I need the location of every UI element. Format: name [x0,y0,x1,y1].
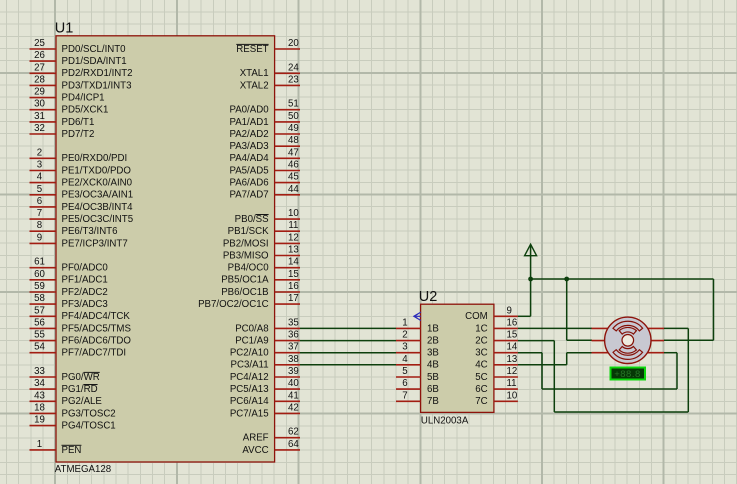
svg-text:57: 57 [34,305,45,316]
svg-text:PD1/SDA/INT1: PD1/SDA/INT1 [62,56,127,67]
svg-text:38: 38 [288,354,299,365]
svg-text:14: 14 [507,342,518,353]
svg-text:PA5/AD5: PA5/AD5 [229,165,268,176]
svg-text:XTAL2: XTAL2 [240,80,269,91]
svg-text:45: 45 [288,172,299,183]
svg-text:PF2/ADC2: PF2/ADC2 [62,287,108,298]
svg-text:2B: 2B [427,336,439,347]
svg-text:30: 30 [34,99,45,110]
svg-text:2: 2 [37,147,42,158]
svg-text:28: 28 [34,74,45,85]
svg-text:6: 6 [37,196,42,207]
svg-text:PD0/SCL/INT0: PD0/SCL/INT0 [62,44,127,55]
svg-text:PE3/OC3A/AIN1: PE3/OC3A/AIN1 [62,190,134,201]
svg-text:1: 1 [37,439,42,450]
svg-text:46: 46 [288,160,299,171]
svg-text:10: 10 [288,208,299,219]
svg-text:51: 51 [288,99,299,110]
svg-text:14: 14 [288,257,299,268]
svg-text:PF4/ADC4/TCK: PF4/ADC4/TCK [62,311,131,322]
svg-text:7B: 7B [427,396,439,407]
svg-text:PC0/A8: PC0/A8 [235,323,268,334]
svg-text:5: 5 [37,184,42,195]
svg-text:PB3/MISO: PB3/MISO [223,250,269,261]
svg-text:PA0/AD0: PA0/AD0 [229,105,269,116]
svg-text:16: 16 [288,281,299,292]
svg-text:PE6/T3/INT6: PE6/T3/INT6 [62,226,118,237]
svg-text:55: 55 [34,330,45,341]
svg-text:RESET: RESET [236,44,268,55]
svg-text:43: 43 [34,390,45,401]
svg-text:41: 41 [288,390,299,401]
svg-text:3: 3 [402,342,407,353]
svg-text:PA2/AD2: PA2/AD2 [229,129,268,140]
svg-text:29: 29 [34,87,45,98]
svg-text:36: 36 [288,330,299,341]
svg-text:+88.8: +88.8 [614,369,641,380]
svg-text:PB7/OC2/OC1C: PB7/OC2/OC1C [198,299,269,310]
svg-text:PA7/AD7: PA7/AD7 [229,190,268,201]
svg-text:1: 1 [402,317,407,328]
svg-text:PB1/SCK: PB1/SCK [228,226,269,237]
svg-text:58: 58 [34,293,45,304]
svg-text:PF1/ADC1: PF1/ADC1 [62,275,108,286]
svg-text:PEN: PEN [62,445,82,456]
svg-text:25: 25 [34,38,45,49]
svg-text:40: 40 [288,378,299,389]
svg-text:23: 23 [288,74,299,85]
svg-text:7: 7 [402,390,407,401]
svg-text:PC7/A15: PC7/A15 [230,408,269,419]
svg-text:PC5/A13: PC5/A13 [230,384,269,395]
svg-text:5: 5 [402,366,407,377]
svg-text:64: 64 [288,439,299,450]
svg-text:2: 2 [402,330,407,341]
svg-text:PD6/T1: PD6/T1 [62,117,95,128]
svg-text:6: 6 [402,378,407,389]
svg-text:PB2/MOSI: PB2/MOSI [223,238,269,249]
svg-text:34: 34 [34,378,45,389]
svg-text:33: 33 [34,366,45,377]
svg-text:15: 15 [507,330,518,341]
svg-text:20: 20 [288,38,299,49]
svg-text:60: 60 [34,269,45,280]
svg-text:13: 13 [507,354,518,365]
svg-text:PD3/TXD1/INT3: PD3/TXD1/INT3 [62,80,132,91]
svg-text:10: 10 [507,390,518,401]
svg-text:PF5/ADC5/TMS: PF5/ADC5/TMS [62,323,132,334]
svg-text:50: 50 [288,111,299,122]
svg-text:7C: 7C [475,396,487,407]
svg-text:3C: 3C [475,348,487,359]
svg-text:PA3/AD3: PA3/AD3 [229,141,268,152]
svg-text:PE5/OC3C/INT5: PE5/OC3C/INT5 [62,214,134,225]
svg-text:PC6/A14: PC6/A14 [230,396,269,407]
svg-text:2C: 2C [475,336,487,347]
svg-text:4C: 4C [475,360,487,371]
svg-text:11: 11 [288,220,298,231]
svg-text:PG4/TOSC1: PG4/TOSC1 [62,421,116,432]
svg-text:ULN2003A: ULN2003A [421,416,469,427]
svg-text:56: 56 [34,317,45,328]
svg-text:PC2/A10: PC2/A10 [230,348,269,359]
svg-text:39: 39 [288,366,299,377]
svg-text:4B: 4B [427,360,439,371]
svg-text:PF3/ADC3: PF3/ADC3 [62,299,108,310]
svg-text:PD7/T2: PD7/T2 [62,129,95,140]
svg-text:26: 26 [34,50,45,61]
svg-text:6C: 6C [475,384,487,395]
svg-text:PE4/OC3B/INT4: PE4/OC3B/INT4 [62,202,134,213]
svg-text:48: 48 [288,135,299,146]
svg-text:PA1/AD1: PA1/AD1 [229,117,268,128]
svg-text:13: 13 [288,245,299,256]
svg-text:PF7/ADC7/TDI: PF7/ADC7/TDI [62,348,127,359]
svg-text:24: 24 [288,62,299,73]
svg-text:ATMEGA128: ATMEGA128 [55,464,111,475]
svg-text:PE2/XCK0/AIN0: PE2/XCK0/AIN0 [62,178,133,189]
svg-text:PE0/RXD0/PDI: PE0/RXD0/PDI [62,153,128,164]
svg-text:3: 3 [37,160,42,171]
svg-text:18: 18 [34,402,45,413]
svg-text:32: 32 [34,123,45,134]
svg-text:PG0/WR: PG0/WR [62,372,100,383]
svg-text:7: 7 [37,208,42,219]
svg-text:4: 4 [37,172,43,183]
svg-text:AVCC: AVCC [242,445,268,456]
svg-text:9: 9 [507,305,512,316]
svg-text:5B: 5B [427,372,439,383]
svg-text:PG1/RD: PG1/RD [62,384,98,395]
svg-text:PC4/A12: PC4/A12 [230,372,269,383]
svg-text:COM: COM [465,311,488,322]
svg-text:35: 35 [288,317,299,328]
svg-text:16: 16 [507,317,518,328]
svg-text:47: 47 [288,147,299,158]
svg-text:PA6/AD6: PA6/AD6 [229,178,268,189]
svg-text:4: 4 [402,354,408,365]
svg-text:PF0/ADC0: PF0/ADC0 [62,263,109,274]
svg-text:6B: 6B [427,384,439,395]
svg-text:PB0/SS: PB0/SS [235,214,269,225]
svg-text:62: 62 [288,427,299,438]
svg-text:19: 19 [34,415,45,426]
svg-text:PC1/A9: PC1/A9 [235,336,268,347]
svg-text:PD5/XCK1: PD5/XCK1 [62,105,109,116]
svg-text:PD2/RXD1/INT2: PD2/RXD1/INT2 [62,68,133,79]
svg-text:11: 11 [507,378,517,389]
svg-text:AREF: AREF [243,433,269,444]
svg-text:42: 42 [288,402,299,413]
svg-text:PB4/OC0: PB4/OC0 [228,263,270,274]
svg-text:3B: 3B [427,348,439,359]
svg-text:1C: 1C [475,323,487,334]
svg-text:1B: 1B [427,323,439,334]
svg-text:61: 61 [34,257,45,268]
svg-text:PB6/OC1B: PB6/OC1B [221,287,268,298]
svg-text:59: 59 [34,281,45,292]
svg-text:PG3/TOSC2: PG3/TOSC2 [62,408,116,419]
svg-text:PE1/TXD0/PDO: PE1/TXD0/PDO [62,165,132,176]
svg-text:54: 54 [34,342,45,353]
svg-text:8: 8 [37,220,42,231]
svg-text:12: 12 [507,366,518,377]
svg-text:49: 49 [288,123,299,134]
svg-text:PB5/OC1A: PB5/OC1A [221,275,269,286]
svg-text:U2: U2 [419,289,438,305]
svg-text:PG2/ALE: PG2/ALE [62,396,103,407]
svg-text:44: 44 [288,184,299,195]
svg-text:12: 12 [288,232,299,243]
svg-text:U1: U1 [55,20,74,36]
svg-text:27: 27 [34,62,45,73]
svg-text:XTAL1: XTAL1 [240,68,269,79]
svg-text:37: 37 [288,342,299,353]
svg-text:9: 9 [37,232,42,243]
svg-text:PA4/AD4: PA4/AD4 [229,153,269,164]
svg-text:31: 31 [34,111,45,122]
svg-text:PE7/ICP3/INT7: PE7/ICP3/INT7 [62,238,128,249]
svg-text:5C: 5C [475,372,487,383]
svg-text:PC3/A11: PC3/A11 [231,360,269,371]
svg-text:PD4/ICP1: PD4/ICP1 [62,93,105,104]
svg-text:15: 15 [288,269,299,280]
svg-text:PF6/ADC6/TDO: PF6/ADC6/TDO [62,336,132,347]
svg-text:17: 17 [288,293,299,304]
